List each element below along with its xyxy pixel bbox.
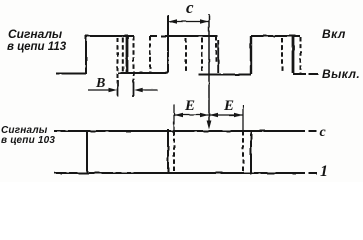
- svg-text:c: c: [320, 125, 327, 140]
- svg-text:B: B: [95, 76, 105, 91]
- svg-text:E: E: [184, 98, 195, 114]
- svg-text:Вкл: Вкл: [322, 27, 346, 41]
- svg-text:E: E: [223, 98, 234, 114]
- svg-text:в цепи 113: в цепи 113: [7, 41, 67, 53]
- svg-text:c: c: [186, 0, 194, 17]
- svg-text:в цепи 103: в цепи 103: [1, 135, 55, 146]
- svg-text:Сигналы: Сигналы: [8, 27, 63, 41]
- svg-text:Выкл.: Выкл.: [322, 67, 360, 81]
- svg-text:1: 1: [320, 163, 328, 180]
